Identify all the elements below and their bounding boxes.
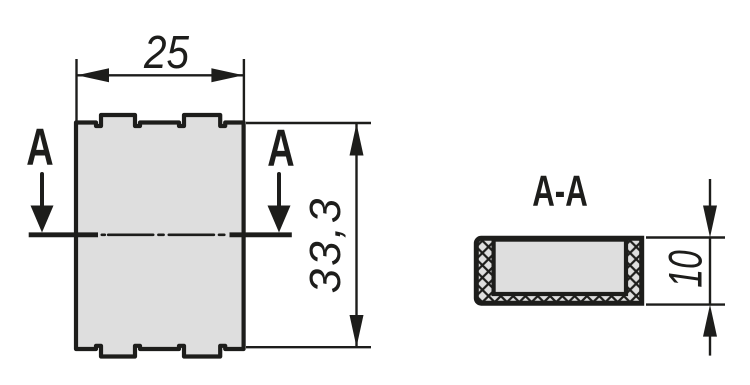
svg-text:25: 25 <box>143 28 190 79</box>
svg-text:A: A <box>267 118 294 176</box>
svg-text:33,3: 33,3 <box>301 196 350 294</box>
section arrow left: head <box>31 206 54 233</box>
dimension 33,3: arrowhead bottom <box>350 315 364 347</box>
section view A-A: inner cavity <box>494 240 626 294</box>
section arrow right: head <box>268 206 291 233</box>
dimension 25: arrowhead left <box>77 68 109 82</box>
svg-text:A-A: A-A <box>532 166 588 216</box>
dimension 10: bottom arrow stem <box>709 336 711 356</box>
dimension 10: bottom arrowhead <box>703 305 717 337</box>
dimension 10: top arrowhead <box>703 206 717 238</box>
dimension 25: dimension line <box>77 74 244 76</box>
dimension 10: extension line top <box>646 236 725 238</box>
dimension 10: dimension line <box>709 238 711 305</box>
section arrow left: stem <box>40 174 44 208</box>
section line A-A: left thick segment <box>29 232 98 237</box>
dimension 33,3: arrowhead top <box>350 124 364 156</box>
section line A-A: right thick segment <box>230 232 292 237</box>
section view A-A: outer profile with hatch <box>476 238 641 303</box>
dimension 10: extension line bottom <box>646 303 725 305</box>
dimension 33,3: extension line bottom <box>246 346 371 348</box>
dimension 25: extension line left <box>75 59 77 121</box>
section line A-A: center dash-dot line <box>102 234 225 237</box>
dimension 33,3: dimension line <box>355 124 357 348</box>
section arrow right: stem <box>277 174 281 208</box>
dimension 33,3: extension line top <box>246 122 371 124</box>
dimension 10: top arrow stem <box>709 179 711 207</box>
dimension 25: extension line right <box>243 59 245 121</box>
svg-text:A: A <box>26 117 53 175</box>
dimension 25: arrowhead right <box>211 68 243 82</box>
front view part outline (cover profile) <box>76 115 244 357</box>
svg-text:10: 10 <box>659 250 712 288</box>
